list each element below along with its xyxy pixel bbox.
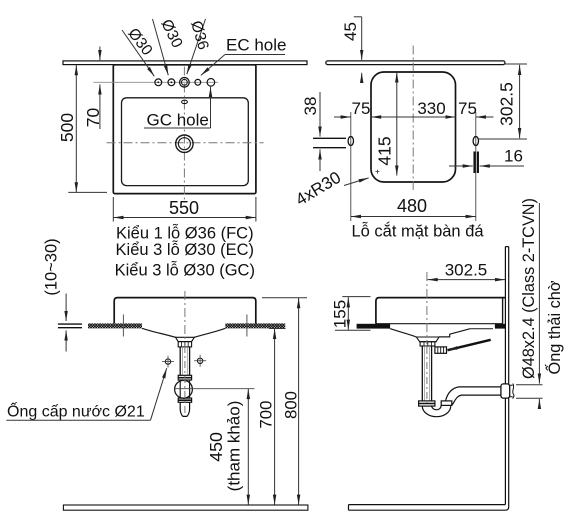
faucet hole 1: [155, 79, 162, 86]
faucet hole 2: [168, 79, 175, 86]
svg-text:Ø48x2.4 (Class 2-TCVN): Ø48x2.4 (Class 2-TCVN): [520, 198, 538, 379]
front centerline: [184, 291, 186, 341]
svg-text:Kiểu 3 lỗ Ø30 (GC): Kiểu 3 lỗ Ø30 (GC): [115, 261, 255, 280]
svg-text:70: 70: [83, 108, 103, 128]
svg-text:45: 45: [341, 22, 360, 41]
counter thickness break lines front: [58, 323, 82, 325]
basin inner rounded rectangle: [122, 98, 249, 186]
bolt hole left: [350, 112, 352, 221]
dimension 45: [354, 16, 362, 18]
overflow hole ellipse: [182, 100, 188, 103]
counter hatched right: [225, 323, 285, 328]
tailpipe side: [422, 346, 431, 401]
svg-text:Ống cấp nước Ø21: Ống cấp nước Ø21: [7, 401, 145, 421]
pipe tip: [180, 402, 189, 416]
sink outer rectangle: [113, 65, 256, 194]
bowl underside side left: [390, 329, 416, 337]
svg-text:38: 38: [301, 97, 320, 116]
faucet hole 4 (EC): [195, 79, 201, 85]
counter slab (cutout view): [326, 61, 505, 65]
cutout edge ticks: [122, 315, 124, 337]
bolt hole right: [475, 112, 477, 221]
tailpipe: [180, 347, 189, 375]
side view centerline: [426, 272, 428, 344]
svg-text:EC hole: EC hole: [226, 36, 286, 55]
dimension 450: [247, 389, 249, 505]
trap circle: [175, 380, 193, 398]
svg-text:480: 480: [397, 196, 427, 216]
wall double line: [505, 247, 508, 507]
dimension 330: [371, 116, 456, 118]
vertical centerline: [183, 67, 185, 202]
fixing bar (16 thick): [473, 152, 475, 174]
svg-text:(10~30): (10~30): [43, 238, 61, 295]
dimension 38: [319, 92, 321, 137]
dimension 550: [112, 197, 114, 222]
pipe diameter extension lines: [516, 384, 543, 386]
wall pipe flange: [501, 384, 510, 398]
dimension 700: [269, 328, 286, 330]
label leader Ø30 first: [122, 30, 154, 76]
lower nut: [178, 398, 191, 402]
svg-text:Ống thải chờ: Ống thải chờ: [544, 280, 564, 374]
svg-text:16: 16: [504, 147, 523, 166]
dimension 302.5 (side): [428, 279, 506, 281]
bowl underside side right: [439, 329, 470, 337]
dimension 75 left: [334, 116, 351, 118]
svg-text:GC hole: GC hole: [147, 111, 209, 130]
drain flange: [176, 337, 195, 341]
svg-text:Kiểu 1 lỗ Ø36 (FC): Kiểu 1 lỗ Ø36 (FC): [116, 224, 254, 243]
faucet hole 5 (GC): [207, 79, 215, 87]
svg-text:415: 415: [375, 136, 395, 165]
svg-text:330: 330: [417, 99, 445, 118]
bowl underside left: [142, 328, 176, 337]
trap lower nut right: [441, 401, 452, 406]
svg-text:(tham khảo): (tham khảo): [225, 401, 244, 492]
corner center mark: [375, 170, 379, 174]
dimension 415: [396, 72, 398, 175]
J bend: [422, 406, 450, 417]
leader to waste outlet (thick): [448, 340, 491, 350]
dimension 70: [99, 47, 101, 61]
supply point right: [197, 358, 202, 363]
drain nut side: [420, 342, 435, 346]
dimension 500: [75, 65, 77, 192]
dimension 800: [262, 297, 307, 299]
trap lower nut left: [419, 401, 435, 406]
pipe coupling nut: [178, 375, 191, 380]
dimension 155: [342, 296, 370, 298]
counter section right (solid): [495, 324, 506, 329]
sink body front outline: [114, 298, 256, 324]
horizontal centerline: [107, 142, 264, 144]
faucet hole 3 (Ø36): [180, 78, 190, 88]
floor slab side: [349, 505, 509, 511]
cutout vertical centerline: [412, 46, 414, 191]
drain nut: [178, 342, 191, 347]
sink side outline: [376, 298, 505, 324]
cutout rounded rectangle: [371, 72, 456, 182]
svg-text:550: 550: [169, 198, 199, 218]
svg-text:500: 500: [57, 113, 77, 142]
drain hole: [176, 135, 193, 152]
pipe leader line: [538, 203, 540, 384]
svg-text:450: 450: [206, 432, 226, 462]
svg-text:155: 155: [331, 300, 350, 328]
counter thickness break lines: [313, 137, 346, 139]
reference line 450: [174, 388, 254, 390]
svg-text:75: 75: [352, 99, 371, 118]
counter hatched left: [88, 323, 142, 328]
supply point left: [165, 359, 170, 364]
dimension 75 right: [476, 116, 494, 118]
svg-text:Kiểu 3 lỗ Ø30 (EC): Kiểu 3 lỗ Ø30 (EC): [116, 240, 254, 259]
svg-text:75: 75: [458, 99, 477, 118]
dimension 302.5 (cutout): [505, 63, 527, 65]
svg-text:302.5: 302.5: [445, 261, 488, 280]
label leader Ø30 second: [153, 19, 169, 75]
svg-text:700: 700: [256, 401, 275, 429]
elbow and horizontal waste pipe: [446, 387, 502, 401]
svg-text:Lỗ cắt mặt bàn đá: Lỗ cắt mặt bàn đá: [351, 222, 484, 241]
svg-text:302.5: 302.5: [497, 82, 517, 126]
lower pipe arrow: [538, 399, 540, 408]
counter slab (plan view left): [63, 61, 307, 65]
counter section left (solid): [357, 324, 391, 329]
svg-text:800: 800: [281, 391, 300, 419]
hole row centerline: [94, 81, 219, 83]
dimension 16: [449, 165, 473, 167]
side outlet nut: [435, 347, 447, 353]
dimension 480: [351, 216, 476, 218]
floor slab front: [63, 505, 308, 510]
drain flange side: [416, 337, 439, 342]
bowl underside right: [194, 328, 225, 337]
label leader Ø36: [187, 19, 206, 74]
